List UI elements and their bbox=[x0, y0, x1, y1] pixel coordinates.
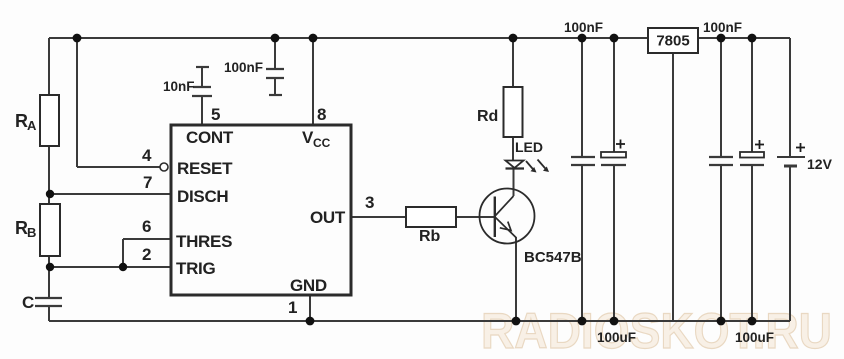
svg-text:Rb: Rb bbox=[419, 228, 441, 245]
svg-text:B: B bbox=[27, 225, 36, 240]
svg-text:TRIG: TRIG bbox=[176, 259, 215, 278]
svg-text:100nF: 100nF bbox=[703, 20, 742, 35]
svg-text:THRES: THRES bbox=[176, 232, 232, 251]
svg-text:100uF: 100uF bbox=[597, 330, 636, 345]
svg-text:2: 2 bbox=[142, 245, 151, 264]
svg-text:7805: 7805 bbox=[656, 33, 689, 50]
svg-text:DISCH: DISCH bbox=[177, 187, 228, 206]
svg-text:10nF: 10nF bbox=[163, 79, 195, 94]
svg-text:8: 8 bbox=[317, 105, 326, 124]
svg-text:5: 5 bbox=[211, 105, 220, 124]
svg-text:C: C bbox=[22, 293, 34, 312]
svg-text:6: 6 bbox=[142, 217, 151, 236]
svg-text:100nF: 100nF bbox=[224, 60, 263, 75]
svg-text:100nF: 100nF bbox=[564, 20, 603, 35]
svg-text:OUT: OUT bbox=[310, 208, 346, 227]
svg-text:4: 4 bbox=[142, 146, 152, 165]
svg-text:CC: CC bbox=[313, 136, 331, 150]
svg-text:A: A bbox=[27, 118, 37, 133]
svg-text:12V: 12V bbox=[807, 156, 833, 172]
svg-text:CONT: CONT bbox=[186, 128, 234, 147]
svg-text:BC547B: BC547B bbox=[524, 249, 582, 266]
svg-text:GND: GND bbox=[290, 276, 327, 295]
svg-text:RESET: RESET bbox=[177, 159, 233, 178]
svg-text:100uF: 100uF bbox=[735, 330, 774, 345]
svg-text:3: 3 bbox=[365, 193, 374, 212]
svg-text:RADIOSKOT.RU: RADIOSKOT.RU bbox=[481, 303, 832, 359]
svg-text:7: 7 bbox=[143, 173, 152, 192]
svg-text:1: 1 bbox=[288, 298, 297, 317]
svg-text:LED: LED bbox=[515, 139, 543, 155]
svg-text:Rd: Rd bbox=[477, 108, 498, 125]
